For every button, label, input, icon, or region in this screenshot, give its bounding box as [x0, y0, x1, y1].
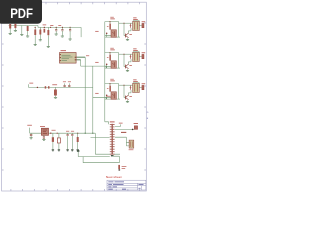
svg-text:New sheet: New sheet	[106, 175, 122, 179]
svg-text:PDF: PDF	[10, 6, 33, 22]
